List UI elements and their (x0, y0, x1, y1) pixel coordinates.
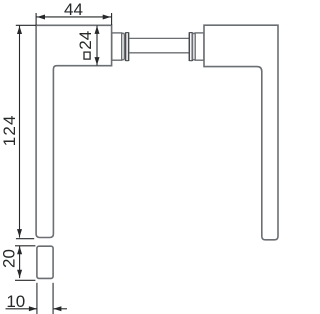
dim 20 line (19, 246, 21, 278)
dim 44 arrows (37, 15, 111, 20)
svg-text:44: 44 (64, 0, 83, 19)
left ring (126, 32, 129, 61)
dim 24 arrows (95, 26, 100, 65)
svg-text:10: 10 (6, 292, 25, 311)
left collar cap (122, 33, 125, 60)
svg-text:124: 124 (0, 114, 19, 146)
dim 124 extension lines (16, 25, 36, 238)
dim 10 arrows (29, 306, 62, 311)
dim 20 arrows (17, 246, 22, 278)
svg-text:24: 24 (76, 31, 95, 50)
right collar flange (195, 33, 204, 60)
svg-text:20: 20 (0, 249, 19, 268)
right collar cap (193, 33, 196, 60)
dim 10 line left (6, 308, 38, 310)
dim 24 line (96, 26, 98, 66)
bottom grip front-view rectangle (37, 246, 53, 278)
dim 20 extension lines (15, 246, 35, 280)
right lever handle outline (204, 25, 278, 240)
left collar flange (112, 33, 122, 60)
left lever handle outline (36, 25, 112, 237)
bottom grip continuation lines (37, 283, 53, 314)
dim 24 square symbol (84, 52, 90, 59)
dim 10 line right (53, 308, 67, 310)
dim 124 line (19, 25, 21, 237)
dim 44 line (36, 16, 112, 18)
dim 44 extension lines (36, 13, 112, 25)
spindle (129, 38, 188, 52)
right ring (189, 32, 192, 61)
dim 124 arrows (17, 26, 22, 237)
